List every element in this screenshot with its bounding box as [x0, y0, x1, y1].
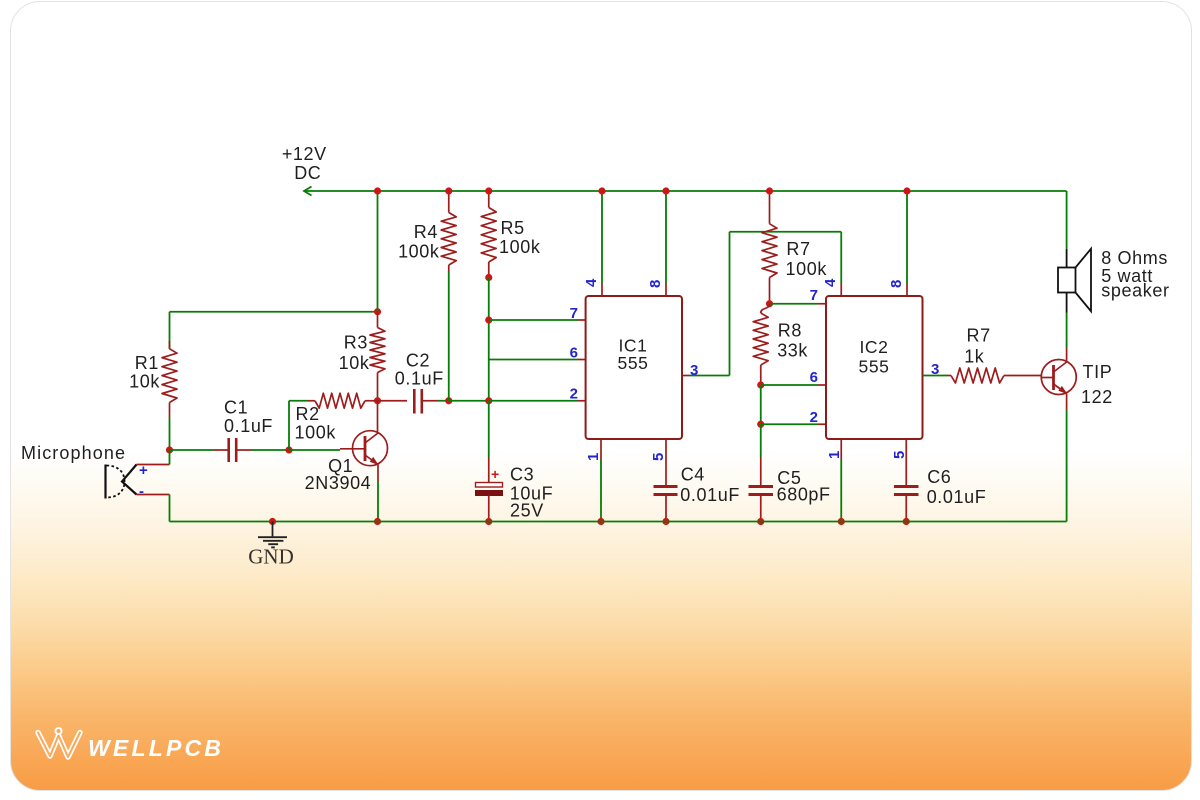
svg-text:122: 122: [1081, 387, 1113, 407]
svg-text:C2: C2: [406, 351, 430, 371]
svg-text:C1: C1: [224, 398, 248, 418]
svg-text:555: 555: [859, 357, 890, 377]
svg-text:3: 3: [931, 361, 939, 378]
resistor R4: [441, 191, 456, 401]
svg-text:+12V: +12V: [282, 144, 327, 164]
node rail/R3 tap: [374, 187, 381, 194]
svg-text:speaker: speaker: [1101, 280, 1169, 300]
wire speaker drop: [1066, 191, 1068, 249]
svg-text:-: -: [139, 483, 144, 500]
stub IC1 pin6: [578, 359, 586, 361]
node IC2 pin1 gnd: [838, 518, 845, 525]
capacitor C6: [894, 439, 919, 522]
svg-text:0.01uF: 0.01uF: [680, 485, 740, 505]
stub IC2 pin6: [818, 384, 826, 386]
node C1/R2 junction: [285, 446, 292, 453]
svg-text:10k: 10k: [129, 372, 160, 392]
node Q1 emitter junction: [374, 518, 381, 525]
logo WellPCB mark: [38, 728, 80, 757]
node C6 bottom: [903, 518, 910, 525]
wire IC1 pin8: [665, 191, 667, 283]
stub IC2 pin8: [906, 283, 908, 296]
resistor R1: [162, 312, 177, 450]
wire mic plus lead: [137, 464, 170, 466]
svg-text:R1: R1: [135, 353, 159, 373]
capacitor C1: [170, 438, 290, 462]
svg-text:33k: 33k: [777, 340, 808, 360]
wire IC2 pin3: [923, 375, 948, 377]
node rail pin8 tap: [662, 187, 669, 194]
svg-text:680pF: 680pF: [777, 484, 831, 504]
svg-text:8: 8: [647, 280, 664, 288]
wire C2 junction to R5 junction: [449, 400, 489, 402]
node C3 bottom: [485, 518, 492, 525]
wire IC1 pin4: [601, 191, 603, 283]
speaker LS1: [1058, 249, 1091, 348]
stub IC2 pin2: [818, 423, 826, 425]
stub IC1 pin8: [665, 283, 667, 296]
node rail/R5 tap: [485, 187, 492, 194]
svg-text:2N3904: 2N3904: [305, 473, 372, 493]
capacitor C5: [749, 424, 774, 521]
svg-text:DC: DC: [294, 163, 321, 183]
node C4 bottom: [662, 518, 669, 525]
stub IC2 pin1: [840, 439, 842, 459]
svg-text:R3: R3: [344, 333, 368, 353]
svg-text:TIP: TIP: [1083, 362, 1113, 382]
svg-text:R4: R4: [414, 222, 438, 242]
svg-text:C6: C6: [927, 467, 951, 487]
resistor R7 1k: [947, 368, 1041, 383]
svg-text:5: 5: [891, 451, 908, 459]
node rail R7 tap: [766, 187, 773, 194]
node IC1 pin1 gnd: [597, 518, 604, 525]
svg-text:R2: R2: [296, 404, 320, 424]
node pin7 tap: [485, 316, 492, 323]
wire ground rail: [170, 521, 1067, 523]
node pin2 junction IC2: [757, 421, 764, 428]
wire IC2 pin8: [906, 191, 908, 283]
svg-text:3: 3: [690, 362, 698, 379]
wire IC1 pin6: [489, 359, 578, 361]
resistor R5: [481, 191, 496, 278]
svg-text:555: 555: [618, 353, 649, 373]
svg-text:C3: C3: [510, 464, 534, 484]
svg-text:10k: 10k: [339, 353, 370, 373]
stub IC1 pin4: [601, 283, 603, 296]
svg-text:4: 4: [822, 278, 839, 287]
node R8/pin6 junction: [757, 381, 764, 388]
svg-text:IC2: IC2: [859, 337, 888, 357]
node R5 bottom junction: [485, 274, 492, 281]
capacitor C4: [654, 439, 678, 522]
svg-text:7: 7: [810, 287, 818, 304]
stub IC1 pin7: [578, 319, 586, 321]
wire IC1 pin1: [600, 459, 602, 522]
node pin2 tap: [485, 397, 492, 404]
wire R3 rail drop: [377, 191, 379, 312]
node rail pin4 tap: [598, 187, 605, 194]
wire mic minus lead: [137, 494, 170, 496]
svg-text:8: 8: [888, 280, 905, 288]
stub IC1 pin2: [578, 400, 586, 402]
resistor R2: [289, 393, 378, 450]
node R1/R3 junction: [374, 308, 381, 315]
capacitor C3: [476, 401, 503, 522]
transistor Q2 TIP122: [1041, 348, 1076, 522]
power arrow +12V: [304, 187, 312, 196]
svg-text:R7: R7: [786, 239, 810, 259]
node rail/R4 tap: [445, 187, 452, 194]
stub IC2 pin7: [818, 303, 826, 305]
wire IC2 pin1: [840, 459, 842, 522]
transistor Q1: [289, 401, 388, 522]
wire +12V top rail: [304, 190, 1067, 192]
svg-text:0.1uF: 0.1uF: [395, 369, 444, 389]
svg-text:2: 2: [810, 409, 818, 426]
svg-text:6: 6: [810, 369, 818, 386]
node rail IC2 pin8 tap: [903, 187, 910, 194]
svg-text:6: 6: [570, 345, 578, 362]
op-amp IC2 555 box: [826, 296, 923, 439]
svg-text:2: 2: [570, 386, 578, 403]
svg-text:Microphone: Microphone: [21, 443, 126, 463]
wire mic plus up: [169, 450, 171, 465]
svg-text:1: 1: [826, 451, 843, 459]
node R3/R2/C2 junction: [374, 397, 381, 404]
microphone MIC1: [106, 465, 137, 499]
svg-text:7: 7: [570, 305, 578, 322]
svg-text:0.1uF: 0.1uF: [224, 416, 273, 436]
svg-text:1k: 1k: [964, 347, 985, 367]
svg-text:1: 1: [585, 453, 602, 461]
svg-text:+: +: [491, 466, 499, 482]
wire IC1 pin2: [489, 400, 578, 402]
svg-text:0.01uF: 0.01uF: [927, 487, 987, 507]
wire mic minus down: [169, 495, 171, 522]
svg-text:100k: 100k: [398, 242, 440, 262]
wire IC1 pin3 to IC2 pin4: [682, 232, 841, 376]
svg-text:R8: R8: [778, 321, 802, 341]
svg-text:GND: GND: [248, 545, 294, 569]
wire R8 to pin2: [760, 385, 762, 424]
op-amp IC1 555 box: [586, 296, 682, 439]
node C2/R4 junction: [445, 397, 452, 404]
node C1/R1 junction: [166, 446, 173, 453]
wire IC1 pin7: [489, 319, 578, 321]
svg-text:WELLPCB: WELLPCB: [88, 735, 224, 761]
svg-text:25V: 25V: [510, 501, 544, 521]
node C5 bottom: [757, 518, 764, 525]
svg-text:4: 4: [583, 278, 600, 287]
svg-text:5: 5: [650, 453, 667, 461]
capacitor C2: [378, 389, 449, 414]
svg-text:R5: R5: [501, 218, 525, 238]
ground GND: [258, 522, 287, 548]
resistor R7 100k: [762, 191, 777, 304]
wire R1 top: [170, 311, 378, 313]
svg-text:100k: 100k: [786, 259, 828, 279]
node gnd tap: [269, 518, 276, 525]
svg-text:R7: R7: [967, 326, 991, 346]
svg-text:C4: C4: [681, 465, 705, 485]
resistor R3: [370, 312, 385, 401]
wire IC2 pin6: [761, 384, 818, 386]
wire R5 to pin7: [488, 278, 490, 401]
resistor R8: [753, 304, 769, 385]
stub IC1 pin1: [600, 439, 602, 459]
svg-text:100k: 100k: [295, 423, 337, 443]
svg-text:100k: 100k: [499, 237, 541, 257]
wire IC2 pin7: [770, 303, 819, 305]
wire IC2 pin2: [761, 423, 818, 425]
node R7/R8 junction: [766, 300, 773, 307]
